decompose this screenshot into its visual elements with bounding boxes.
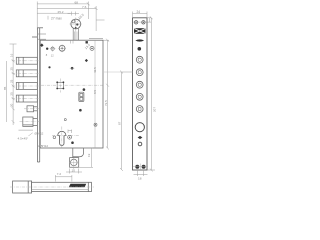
svg-text:27 max: 27 max: [51, 16, 62, 20]
gland width dimension: [66, 169, 82, 174]
double square link element: [79, 92, 84, 101]
svg-text:7.2: 7.2: [57, 172, 62, 176]
rivet dot with cross: [71, 67, 74, 70]
svg-text:24: 24: [137, 10, 141, 14]
svg-text:8.5: 8.5: [93, 89, 97, 94]
latch bevel lens: [135, 39, 144, 41]
latch aperture bowtie: [134, 28, 146, 34]
bolt 5 centerline: [24, 108, 40, 110]
aux latch pivot detail: [76, 23, 78, 25]
small circle with cross: [51, 47, 54, 50]
gland height dimension: [79, 148, 93, 167]
svg-text:207: 207: [153, 107, 157, 112]
bottom screws dimension 18: [134, 171, 148, 176]
svg-text:42.5: 42.5: [93, 67, 97, 73]
plate bottom screw left: [135, 165, 139, 169]
plate left dimension 87: [120, 71, 133, 172]
dimension line 58: [37, 6, 104, 31]
label 4.5x45: [19, 129, 34, 131]
svg-text:10: 10: [72, 168, 76, 172]
screw diamond top-left: [40, 43, 44, 47]
gland roller circle: [71, 159, 78, 166]
svg-text:Ø5H12: Ø5H12: [35, 131, 44, 135]
svg-text:87: 87: [118, 121, 122, 125]
plate top screw right: [142, 21, 145, 24]
small circle left of cylinder: [53, 136, 56, 139]
bolt hole ring 1: [136, 56, 143, 63]
small dim bracket above screw: [68, 130, 72, 134]
retracted bolt 5: [27, 106, 37, 112]
internal vertical edge: [94, 40, 96, 148]
svg-text:Ø5H12: Ø5H12: [38, 144, 48, 148]
bolt centerline link: [104, 71, 122, 73]
small circle lower left: [64, 119, 66, 121]
bolt shaft inner line: [32, 189, 89, 191]
latch bolt side: [23, 117, 38, 126]
pin 1 centerline: [12, 60, 40, 62]
svg-text:85: 85: [3, 86, 7, 90]
svg-text:19: 19: [87, 153, 91, 157]
dimension line 68 top: [37, 2, 90, 31]
svg-text:72.5: 72.5: [104, 100, 108, 106]
pin 3 centerline: [12, 85, 40, 87]
faceplate side strip: [37, 28, 43, 162]
rivet dot mid-left: [48, 66, 50, 68]
svg-text:25.2: 25.2: [58, 10, 64, 14]
rivet dot below right: [71, 141, 74, 144]
outer left dimension line: [6, 61, 8, 122]
svg-text:16: 16: [9, 53, 13, 57]
svg-text:68: 68: [75, 1, 79, 5]
deadbolt pin 1: [16, 57, 37, 64]
plate width dimension 24: [133, 12, 148, 18]
faceplate front view outline: [133, 18, 148, 170]
small dark ring: [138, 142, 142, 146]
left dimension line pins: [10, 44, 17, 125]
dimension line 25.2: [37, 12, 70, 14]
right dimension line of body: [104, 39, 110, 150]
aux latch crosshair: [70, 18, 83, 41]
cylinder centerlines: [52, 127, 79, 148]
rivet dot near follower: [83, 88, 86, 91]
bolt centerline: [10, 186, 94, 188]
bolt side view shaft: [32, 182, 92, 191]
pin 2 centerline: [12, 72, 40, 74]
diamond rivet upper right: [85, 59, 88, 62]
small diameter ticks above aux latch: [68, 12, 80, 16]
deadbolt pin 3: [16, 83, 37, 90]
diamond below cylinder: [138, 136, 143, 139]
rivet square top right: [86, 41, 88, 43]
aux latch stem inner lines: [75, 32, 77, 41]
follower square hole: [57, 82, 63, 88]
plate bottom screw right: [142, 165, 146, 169]
circle with dot: [59, 45, 65, 51]
follower centerlines: [41, 79, 103, 93]
bolt side view head: [13, 181, 32, 193]
left tick at plate top: [32, 36, 37, 38]
aux latch stem slot: [73, 28, 78, 40]
euro cylinder keyhole: [58, 131, 66, 145]
svg-text:25: 25: [9, 79, 13, 83]
screws centerline: [133, 21, 147, 23]
bolt hole ring 3: [136, 81, 143, 88]
small dim ticks at body top: [71, 40, 73, 43]
svg-text:20: 20: [9, 103, 13, 107]
screw circle right lower: [94, 123, 97, 126]
cable gland housing: [70, 148, 84, 167]
auxiliary latch circle: [71, 19, 81, 29]
bolt hole ring 5: [136, 106, 143, 113]
bolt top dimension: [55, 175, 72, 182]
svg-text:25: 25: [9, 67, 13, 71]
plate right dimension 207: [148, 16, 156, 171]
small diamond below latch: [138, 47, 142, 51]
deadbolt pin 2: [16, 70, 37, 77]
lock body outline: [40, 40, 103, 148]
cover plate top edge: [89, 37, 103, 39]
rivet dot lower middle: [79, 109, 82, 112]
circle with dot right: [90, 46, 94, 50]
bolt hole ring 4: [136, 93, 143, 100]
deadbolt pin 4: [16, 95, 37, 102]
bolt dark wedge: [69, 184, 87, 188]
plate top screw left: [134, 21, 137, 24]
bolt hole ring 2: [136, 69, 143, 76]
svg-text:7.6: 7.6: [82, 5, 87, 9]
rivet dot: [46, 48, 48, 50]
cylinder hole front: [135, 123, 144, 132]
top staple lines: [38, 34, 46, 39]
plate corner dimension 3: [148, 18, 152, 22]
pin 4 centerline: [12, 98, 40, 100]
follower corner marks: [56, 81, 64, 89]
latch centerline: [20, 121, 41, 123]
bottom screws centerline: [133, 166, 148, 168]
svg-text:25: 25: [9, 92, 13, 96]
fixing screw circle right of cylinder: [68, 135, 72, 139]
svg-text:18: 18: [138, 177, 142, 181]
svg-text:4.5×45°: 4.5×45°: [18, 136, 30, 140]
